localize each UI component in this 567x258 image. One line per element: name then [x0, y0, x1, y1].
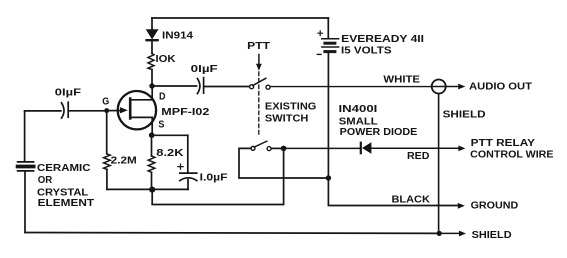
node drain junction dot: [149, 83, 154, 88]
connector circle (audio plug): [432, 80, 446, 94]
capacitor C2 0.1uF (drain): [197, 79, 200, 94]
node source junction dot: [149, 132, 155, 138]
wire source node right: [152, 134, 188, 136]
svg-text:POWER DIODE: POWER DIODE: [340, 126, 418, 138]
capacitor C3 1.0uF: [180, 172, 197, 174]
svg-text:G: G: [102, 95, 109, 107]
svg-text:PTT RELAY: PTT RELAY: [471, 137, 535, 149]
svg-text:I5 VOLTS: I5 VOLTS: [341, 44, 392, 56]
wire cap to gate node: [69, 110, 104, 112]
resistor 10K: [148, 54, 154, 70]
wire bottom node to switch return: [152, 148, 283, 204]
svg-text:RED: RED: [407, 150, 430, 162]
svg-text:IN400I: IN400I: [339, 103, 378, 115]
node gate junction dot: [104, 108, 109, 113]
wire bottom shield line: [25, 232, 439, 235]
arrow audio out: [446, 86, 459, 88]
crystal Y1 ceramic element: [18, 161, 34, 163]
mechanical linkage dashed line: [258, 72, 260, 134]
wire red line to diode: [284, 147, 360, 149]
svg-text:0IµF: 0IµF: [191, 63, 219, 75]
wire ceramic element bottom lead: [24, 172, 26, 233]
svg-text:SHIELD: SHIELD: [443, 108, 486, 120]
wire source node to 8.2K: [151, 135, 153, 156]
svg-text:D: D: [159, 91, 166, 103]
battery B1 Eveready 411: [327, 18, 329, 38]
switch S1b (lower): [251, 146, 255, 150]
wire capacitor to PTT switch: [204, 86, 249, 88]
svg-text:EVEREADY 4II: EVEREADY 4II: [341, 33, 424, 45]
wire resistor to drain node: [151, 70, 153, 87]
wire shield vertical: [438, 94, 440, 234]
wire top rail: [152, 17, 328, 19]
transistor channel bar: [129, 99, 132, 119]
node switch junction dot: [281, 146, 287, 152]
transistor drain lead: [130, 86, 152, 100]
wire input line left: [25, 110, 61, 112]
wire 1.0uF bottom lead: [187, 180, 189, 190]
svg-text:WHITE: WHITE: [383, 74, 420, 86]
resistor 8.2K: [148, 156, 155, 172]
capacitor C1 0.1uF (input): [62, 103, 65, 118]
wire ceramic element top lead: [24, 111, 26, 161]
svg-text:MPF-I02: MPF-I02: [161, 106, 209, 118]
wire white audio line: [270, 86, 431, 88]
svg-text:IOK: IOK: [156, 53, 176, 65]
svg-text:I.0µF: I.0µF: [200, 171, 228, 183]
transistor source lead: [130, 117, 152, 133]
svg-text:0IµF: 0IµF: [55, 87, 82, 99]
svg-text:2.2M: 2.2M: [111, 154, 137, 166]
wire 2.2M bottom: [106, 169, 108, 189]
wire switch return loop: [239, 148, 326, 178]
wire drain node to capacitor: [152, 85, 197, 87]
wire battery negative down to ground line: [328, 53, 458, 205]
diode 1N914: [147, 30, 158, 39]
node battery/switch return dot: [326, 175, 331, 180]
node bottom-left junction dot: [149, 187, 155, 193]
svg-text:BLACK: BLACK: [392, 193, 431, 205]
transistor Q1 MPF-102 circle: [118, 91, 156, 129]
arrow shield: [439, 232, 459, 234]
wire 2.2M leg: [106, 111, 108, 154]
wire diode to resistor: [151, 41, 153, 54]
svg-text:ELEMENT: ELEMENT: [38, 197, 95, 209]
svg-text:PTT: PTT: [247, 40, 270, 52]
switch S1a PTT (upper): [250, 85, 254, 89]
wire 8.2K to bottom node: [151, 172, 153, 189]
svg-text:8.2K: 8.2K: [156, 147, 184, 159]
gate arrow: [120, 107, 128, 113]
svg-text:IN914: IN914: [162, 29, 193, 41]
svg-text:GROUND: GROUND: [471, 199, 519, 211]
resistor 2.2M: [104, 154, 111, 170]
arrow ground: [458, 203, 465, 209]
svg-text:OR: OR: [38, 174, 53, 186]
wire switch to red node: [271, 147, 283, 149]
svg-text:SHIELD: SHIELD: [472, 229, 512, 241]
svg-text:AUDIO OUT: AUDIO OUT: [469, 81, 533, 93]
wire gate into transistor: [107, 110, 121, 112]
wire diode drop from rail: [151, 18, 153, 30]
PTT actuation arrow: [258, 55, 260, 65]
svg-text:S: S: [158, 119, 164, 131]
svg-text:CERAMIC: CERAMIC: [37, 162, 91, 174]
wire down to 1.0uF: [187, 135, 189, 173]
arrow PTT relay control wire: [458, 146, 465, 152]
wire bottom node line: [107, 188, 188, 190]
node shield junction dot: [437, 231, 442, 236]
svg-text:CONTROL WIRE: CONTROL WIRE: [470, 148, 553, 160]
svg-text:EXISTING: EXISTING: [265, 100, 317, 112]
svg-text:SWITCH: SWITCH: [265, 112, 309, 124]
diode D2 1N4001: [360, 143, 362, 154]
wire diode to PTT relay arrow: [371, 147, 458, 149]
